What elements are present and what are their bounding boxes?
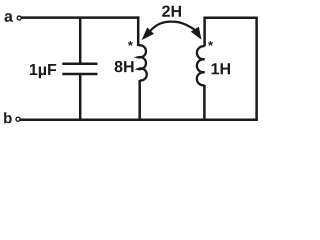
- inductor L1 8H coil: [138, 45, 147, 80]
- mutual arrow right head: [191, 27, 202, 40]
- label 1H: [212, 63, 230, 74]
- wire right branch lower: [203, 85, 206, 121]
- inductor L2 1H coil: [197, 46, 205, 85]
- terminal a: [17, 16, 21, 20]
- capacitor C1 1uF plates: [62, 64, 97, 74]
- label 8H: [115, 61, 134, 72]
- polarity dot L2: [208, 41, 213, 46]
- wire top (a to left branch): [22, 16, 140, 19]
- wire capacitor branch upper: [79, 18, 82, 64]
- label 2H: [162, 6, 181, 17]
- wire left branch upper: [137, 16, 140, 46]
- mutual arrow left head: [142, 28, 154, 41]
- mutual coupling arrow arc: [150, 22, 195, 31]
- wire capacitor branch lower: [79, 74, 82, 120]
- wire bottom (b to right side): [20, 119, 258, 122]
- terminal b: [16, 117, 20, 121]
- wire right loop top and right side: [205, 18, 257, 120]
- label b: [4, 112, 12, 123]
- label a: [5, 13, 14, 22]
- wire left branch lower: [138, 80, 141, 121]
- polarity dot L1: [128, 41, 133, 46]
- label 1uF: [30, 64, 56, 78]
